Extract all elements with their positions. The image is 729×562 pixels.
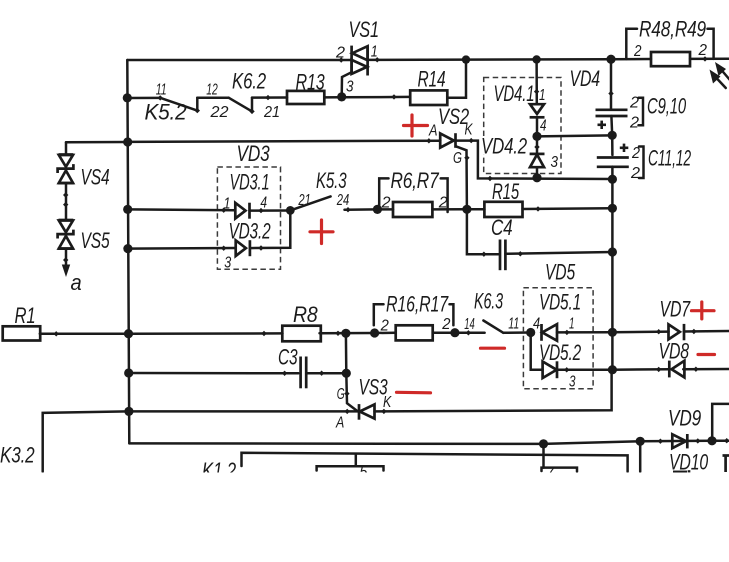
svg-text:21: 21 [298,192,311,209]
resistor R15 [484,202,522,217]
dashed box VD4 [484,78,561,174]
tick after R1 [54,331,59,336]
wire drop to box7 [542,444,545,468]
svg-text:VD5.1: VD5.1 [539,290,581,315]
wire C3 to node [306,372,346,375]
svg-text:11: 11 [156,82,167,99]
svg-text:21: 21 [263,104,280,121]
svg-text:14: 14 [464,316,475,333]
capacitor C9,10 [596,59,628,135]
capacitor C3 [301,357,307,389]
node bus y411 [124,407,133,416]
dashed box VD5 [523,288,593,389]
arrow to node a [62,265,70,278]
wire VD5 inner drop [531,333,543,370]
wire VD8 to edge [683,368,729,371]
wire VD7 to edge [684,330,729,333]
node bus y98 [123,93,132,102]
bracket C9,10 [639,98,644,126]
contact box 7 [542,468,578,472]
wire VS3 to right bus riser [375,370,612,412]
red minus near K6.3 [481,347,505,350]
wire VS5 to arrow [65,249,68,266]
node bottom x543 [539,439,548,448]
wire right bus 179 to 410 [611,179,614,370]
svg-text:2: 2 [629,95,639,112]
svg-text:K: K [465,122,474,139]
svg-text:K6.2: K6.2 [232,69,266,94]
capacitor C4 [500,240,505,271]
svg-text:K: K [383,394,392,411]
resistor R14 [410,90,447,105]
svg-text:VS1: VS1 [349,17,380,42]
svg-text:G: G [337,386,345,403]
tick VS3 anode [345,409,350,414]
node R8 out [341,329,350,338]
wire VS1 gate to node [342,72,352,97]
wire bus to C3 [129,372,299,375]
tick on y178 wire [487,176,492,181]
svg-text:R14: R14 [418,67,446,92]
tick after VD9 [695,438,700,443]
svg-text:C4: C4 [491,215,513,240]
wire R16 to contact [433,331,485,334]
tick G VS3 [344,391,349,396]
wire top rail y=60 [127,59,351,62]
svg-text:1: 1 [569,316,575,333]
tick VS1 pin2 [339,57,344,62]
tick after VD8 [693,367,698,372]
wire bus to VD8 [612,368,669,371]
wire bus to VD7 [612,330,668,333]
box top right partial [712,404,729,441]
red plus near K5.3 [310,220,333,244]
switch K5.2 contact 11-12 [161,98,201,113]
tick VS2 gate [464,155,469,160]
wire contact to VD5 [503,331,530,334]
svg-text:2: 2 [698,42,708,59]
wire VS2 cathode to corner [456,141,613,179]
switch K5.3 [290,196,330,210]
wire bus to VD3.1 [128,208,235,211]
node top rail x536 [532,55,540,63]
node top rail x611 [606,55,615,64]
svg-text:R16,R17: R16,R17 [386,292,449,317]
wire bus to VD3.2 [128,247,235,250]
dashed box VD3 [217,167,280,269]
wire drop x640 [639,441,642,471]
tick 24 [345,207,350,212]
tick 11 [158,95,163,100]
bracket R6,R7 [379,178,447,212]
contact box 5 [317,455,384,471]
node VD4 mid [532,132,541,141]
node VD5 in [526,328,535,337]
wire VS3 gate riser [346,333,358,411]
tick VS2 anode [426,138,431,143]
svg-text:24: 24 [336,192,349,209]
red plus near VD7 [692,302,715,319]
wire VD4 mid to right bus [537,135,612,136]
resistor R48,R49 box [651,52,690,66]
tick before VD8 [656,367,661,372]
tick before VD9 [658,439,663,444]
node VD3 out [286,206,295,215]
wire VD3.1 to node [250,209,291,212]
node bus y333 [124,329,133,338]
wire VD5.2 to bus [557,368,612,371]
wire node to R15 [467,208,485,211]
svg-text:K5.2: K5.2 [145,100,187,125]
tick before C3 [282,371,287,376]
wire gate node to R14 [342,96,411,99]
svg-text:VD9: VD9 [668,406,701,431]
diode VD5.1 [542,324,558,341]
wire bottom rail y443 [129,441,729,444]
red plus near VS2 [404,115,428,136]
diode VD9 [672,434,687,448]
tick after R15 [535,206,540,211]
bracket R16,R17 [374,304,454,325]
tick after C3 [319,371,324,376]
node R6R7 left [373,205,382,214]
diode VD7 [669,324,685,340]
svg-text:C3: C3 [278,345,298,370]
node bus y209 [123,205,132,214]
node right bus y369 [608,365,617,374]
scan cutoff white [0,473,729,562]
tick after R8 [335,331,340,336]
svg-text:22: 22 [209,104,228,121]
node bottom x640 [636,437,645,446]
svg-text:G: G [453,150,462,167]
wire top rail down to VD4.1 [535,60,538,105]
svg-text:VD7: VD7 [660,297,691,322]
diode VD10 partial [673,470,689,472]
wire R14 up to top rail [447,60,466,98]
wire VS2 gate [456,146,467,209]
thyristor VS1 (triac) [352,46,368,76]
wire VS4 to VS5 [65,183,68,220]
tick after VD7 [691,329,696,334]
wire bus to R8 [129,332,283,335]
node R16 out [450,328,459,337]
plus sign C11,12 [620,144,629,152]
red minus near VS3 [397,391,431,395]
svg-text:VD5.2: VD5.2 [539,340,581,365]
resistor R1 [3,326,41,340]
tick after C4 [518,251,523,256]
svg-text:2: 2 [630,165,640,182]
tick 14 [466,330,471,335]
wire R15 to right bus [523,207,613,210]
wire bus to VS3 [129,410,359,413]
node bus y248 [123,244,132,253]
wire R8 to nodes [320,332,375,335]
svg-text:R6,R7: R6,R7 [391,168,440,193]
node G junction [462,205,471,214]
wire K5.3 to R6R7 [345,208,378,211]
wire R48 output to right edge [690,57,729,60]
tick right of R48 [702,56,707,61]
tick above arrow [63,257,68,262]
wire C4 branch [467,209,499,254]
capacitor C11,12 [597,135,629,179]
svg-text:K6.3: K6.3 [474,289,504,314]
svg-text:K3.2: K3.2 [0,443,35,468]
wire VD5.1 to bus [557,331,612,334]
node VD4 bottom [532,173,541,182]
tick after VD5.2 [564,367,569,372]
wire R6R7 to node [432,208,467,211]
node bus y142 [123,137,132,146]
resistor R13 [287,91,324,104]
svg-text:R15: R15 [492,179,520,204]
svg-text:K5.3: K5.3 [316,168,347,193]
node bus y373 [124,368,133,377]
node x612 y179 [608,175,617,184]
svg-text:3: 3 [569,373,576,390]
tick between VS4 VS5 a [63,192,68,197]
svg-text:2: 2 [441,316,450,333]
svg-text:3: 3 [224,255,231,272]
tick pin3 VD3.2 [221,246,226,251]
node R16 left [370,328,379,337]
svg-text:VD4.2: VD4.2 [481,134,527,159]
svg-text:12: 12 [206,82,218,99]
svg-text:VD4.1: VD4.1 [494,81,535,106]
wire between K5.2 and K6.2 [197,96,228,99]
tick before R8 [261,331,266,336]
node x612 y135 [608,131,617,140]
tick after VD3.1 [258,208,263,213]
node right bus y208 [608,204,617,213]
mini symbol right edge [723,456,729,473]
wire VS4 branch top [66,141,128,144]
wire K5.2 row from bus [127,97,160,100]
tick between VS4 VS5 b [63,202,68,207]
switch K6.2 contact 22-21 [229,98,255,115]
wire R13 to VS1 gate node [324,96,341,99]
svg-text:VD3: VD3 [237,141,271,166]
wire C4 to right bus [505,252,612,254]
tick before R14 [391,94,396,99]
tick right edge bottom [724,438,729,443]
wire VS4 drop [65,142,68,154]
resistor R8 [282,326,321,342]
svg-text:VS4: VS4 [81,165,110,190]
wire K3.2 branch [43,411,129,471]
tick after VD5.1 [564,330,569,335]
diode VD8 [669,361,684,378]
thyristor VS3 [359,404,375,420]
tick after VD3.2 [258,245,263,250]
tick after VS3 [381,409,386,414]
tick VD4.1 anode [534,89,539,94]
suppressor VS4 [58,155,74,184]
tick before C4 [481,252,486,257]
node top rail x466 [462,55,470,63]
node VS1 gate junction [337,92,346,101]
bracket C11,12 [639,147,644,179]
svg-text:R13: R13 [296,70,326,95]
svg-text:A: A [428,123,437,140]
diode VD4.1 [530,104,545,136]
red minus near VD8 [698,353,715,356]
svg-text:VD5: VD5 [545,260,576,285]
svg-text:C11,12: C11,12 [648,146,691,171]
svg-text:VD3.1: VD3.1 [230,170,270,195]
svg-text:C9,10: C9,10 [647,94,687,119]
wire R1 to bus [40,332,129,335]
wire K6.2 to R13 [252,96,287,99]
node C3 out [342,369,351,378]
svg-text:2: 2 [629,115,639,132]
wire node to R48 [611,58,651,61]
wire y142 to VS2 anode [128,141,441,142]
diode VD3.1 [235,203,249,219]
suppressor VS5 [58,220,74,249]
svg-text:2: 2 [633,43,641,60]
wire VD3.2 to riser [250,210,290,248]
resistor R6,R7 [393,202,432,217]
diode VD5.2 [543,361,557,378]
svg-text:3: 3 [551,154,559,171]
white patch for VD4.2 label [480,136,528,154]
tick pin1 VD3.1 [221,208,226,213]
svg-text:a: a [71,270,82,295]
svg-text:2: 2 [631,145,640,162]
wire node to R16 [375,332,396,335]
thyristor VS2 [440,133,455,148]
svg-text:4: 4 [533,316,540,333]
node bottom x712 [707,436,716,445]
resistor R16,R17 [396,325,433,340]
wire top rail right of VS1 [368,58,611,61]
svg-text:VS5: VS5 [81,228,111,253]
wire node to R6R7 [377,208,393,211]
plus sign C9,10 [598,121,607,129]
tick before VD7 [656,329,661,334]
svg-text:VD4: VD4 [570,66,601,91]
diode VD4.2 [530,136,545,177]
wire left bus vertical x=128 [127,60,129,443]
svg-text:3: 3 [346,79,354,96]
svg-text:A: A [335,415,344,432]
svg-text:R1: R1 [15,303,36,328]
bracket R48,R49 [626,29,637,59]
tick 21 [265,95,270,100]
tick after VS2 K [469,138,474,143]
node right bus y252 [608,247,617,256]
svg-text:4: 4 [540,118,547,135]
svg-text:R8: R8 [293,302,318,327]
svg-text:R48,R49: R48,R49 [639,17,706,42]
switch K6.3 blade [483,321,503,333]
diode VD3.2 [236,240,250,256]
svg-text:1: 1 [224,196,231,213]
photo arrows at R48 [710,62,729,88]
wire K1.2 row [242,453,628,472]
node right bus y332 [608,328,617,337]
svg-text:1: 1 [539,87,546,104]
svg-text:11: 11 [508,315,519,332]
tick VS1 pin1 [375,57,380,62]
